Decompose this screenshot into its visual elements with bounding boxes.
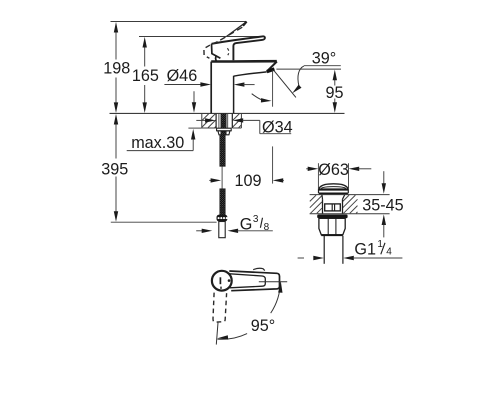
svg-text:95°: 95°	[251, 317, 275, 335]
svg-text:4: 4	[386, 246, 392, 257]
svg-text:G: G	[240, 216, 253, 234]
svg-text:Ø46: Ø46	[167, 67, 198, 85]
svg-text:165: 165	[132, 67, 159, 85]
svg-text:109: 109	[234, 172, 261, 190]
svg-text:395: 395	[101, 160, 128, 178]
svg-text:95: 95	[325, 84, 343, 102]
svg-text:198: 198	[103, 60, 130, 78]
svg-text:Ø63: Ø63	[318, 161, 349, 179]
svg-text:G1: G1	[354, 241, 376, 259]
svg-text:max.30: max.30	[131, 134, 184, 152]
svg-text:35-45: 35-45	[362, 196, 403, 214]
svg-text:3: 3	[253, 214, 259, 225]
svg-text:8: 8	[264, 222, 270, 233]
svg-text:39°: 39°	[312, 50, 336, 68]
svg-text:Ø34: Ø34	[262, 118, 293, 136]
